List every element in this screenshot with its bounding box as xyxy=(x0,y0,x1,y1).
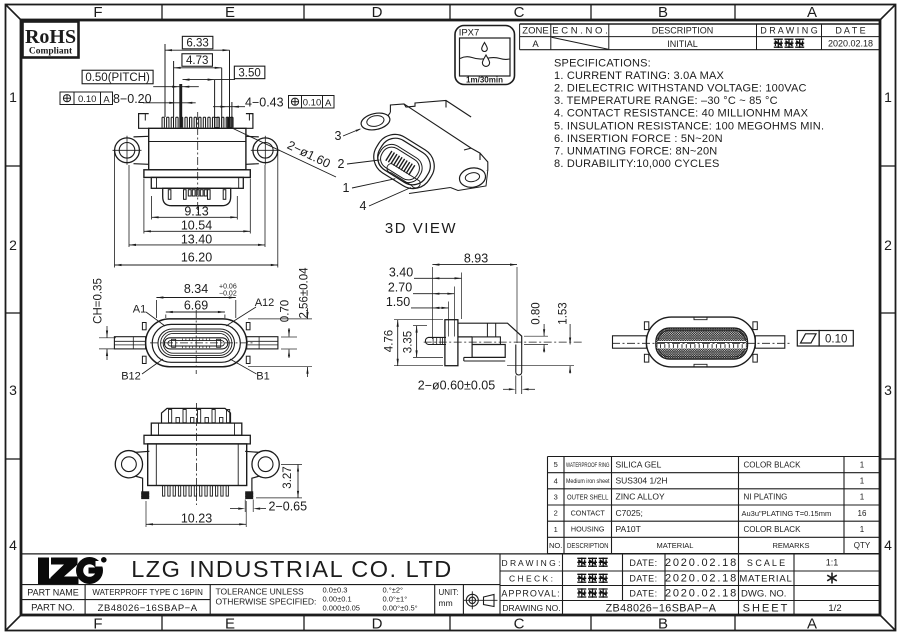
svg-text:8.34: 8.34 xyxy=(184,282,208,296)
front view shell left tab xyxy=(139,114,149,129)
svg-text:3.40: 3.40 xyxy=(389,266,413,280)
svg-text:A: A xyxy=(807,4,817,21)
svg-text:UNIT:: UNIT: xyxy=(439,588,459,597)
svg-text:C: C xyxy=(514,4,525,21)
svg-text:TOLERANCE UNLESS: TOLERANCE UNLESS xyxy=(216,587,305,597)
svg-text:PA10T: PA10T xyxy=(616,524,641,534)
svg-text:SPECIFICATIONS:: SPECIFICATIONS: xyxy=(554,58,651,70)
3D view tongue edge xyxy=(385,162,421,189)
svg-text:10.54: 10.54 xyxy=(181,219,212,233)
front view step block xyxy=(151,177,243,188)
svg-text:OUTER SHELL: OUTER SHELL xyxy=(567,492,609,501)
svg-text:4.76: 4.76 xyxy=(384,330,396,352)
svg-text:0.10: 0.10 xyxy=(78,94,97,105)
svg-text:A: A xyxy=(807,616,817,633)
svg-text:1/2: 1/2 xyxy=(828,603,841,614)
ECN revision table xyxy=(520,24,880,50)
svg-text:DATE:: DATE: xyxy=(629,574,657,584)
svg-text:B1: B1 xyxy=(256,371,269,383)
front view top pins xyxy=(162,117,233,127)
svg-text:2020.02.18: 2020.02.18 xyxy=(665,573,738,585)
svg-text:2. DIELECTRIC WITHSTAND VOL: 2. DIELECTRIC WITHSTAND VOLTAGE: 100VAC xyxy=(554,83,807,95)
svg-text:1: 1 xyxy=(554,525,558,534)
svg-text:1: 1 xyxy=(860,493,865,502)
svg-text:3: 3 xyxy=(9,382,17,398)
svg-text:LZG INDUSTRIAL CO. LTD: LZG INDUSTRIAL CO. LTD xyxy=(131,556,453,582)
svg-text:2−ø0.60±0.05: 2−ø0.60±0.05 xyxy=(418,379,495,393)
bottom view top cap xyxy=(162,408,231,423)
bottom view flange xyxy=(144,435,250,444)
top view outer oval xyxy=(646,317,755,367)
svg-text:A: A xyxy=(532,39,539,50)
svg-text:8. DURABILITY:10,000 CYCLES: 8. DURABILITY:10,000 CYCLES xyxy=(554,158,720,170)
svg-text:0.50(PITCH): 0.50(PITCH) xyxy=(85,72,150,84)
svg-text:0.00°±0.5°: 0.00°±0.5° xyxy=(383,604,418,613)
svg-text:APPROVAL:: APPROVAL: xyxy=(501,588,560,598)
front view dim extension lines left xyxy=(165,44,174,117)
svg-text:B12: B12 xyxy=(121,371,141,383)
svg-text:9.13: 9.13 xyxy=(184,204,208,218)
side view mid block xyxy=(472,337,500,345)
svg-text:S C A L E: S C A L E xyxy=(747,558,785,568)
front view shell right tab xyxy=(246,114,253,129)
top view left lead xyxy=(613,336,647,348)
svg-text:DATE:: DATE: xyxy=(629,558,657,568)
svg-text:INITIAL: INITIAL xyxy=(667,39,698,49)
svg-text:3: 3 xyxy=(335,129,342,143)
svg-text:0.10: 0.10 xyxy=(825,334,847,346)
svg-text:ZB48026−16SBAP−A: ZB48026−16SBAP−A xyxy=(98,603,198,614)
svg-text:+0.06: +0.06 xyxy=(219,284,237,291)
svg-text:6. INSERTION FORCE : 5N~20: 6. INSERTION FORCE : 5N~20N xyxy=(554,133,723,145)
svg-text:2.56±0.04: 2.56±0.04 xyxy=(299,267,311,319)
3D view waterproof ring oval xyxy=(367,127,442,195)
face view centerlines xyxy=(195,310,197,374)
svg-text:0.00±0.1: 0.00±0.1 xyxy=(323,595,352,604)
svg-text:2−0.65: 2−0.65 xyxy=(269,500,308,514)
flatness callout frame xyxy=(797,331,819,347)
svg-text:4: 4 xyxy=(554,476,558,485)
top view hatched seal ring xyxy=(656,328,748,359)
svg-text:1: 1 xyxy=(884,89,892,105)
part name / part no rows xyxy=(21,599,210,601)
face view second shell xyxy=(152,324,240,362)
svg-text:0.80: 0.80 xyxy=(531,302,543,324)
svg-text:A: A xyxy=(103,94,110,105)
svg-text:16: 16 xyxy=(858,509,867,518)
svg-text:PART NO.: PART NO. xyxy=(31,603,75,614)
svg-text:2020.02.18: 2020.02.18 xyxy=(665,587,738,599)
svg-text:D R A W I N G :: D R A W I N G : xyxy=(501,558,560,568)
3D view mouth ovals xyxy=(373,140,426,187)
side view right leg xyxy=(515,345,517,373)
face view right mount tabs xyxy=(246,323,250,330)
bill of materials table xyxy=(548,457,881,554)
front view base flange xyxy=(144,170,250,178)
svg-text:CH=0.35: CH=0.35 xyxy=(93,278,105,324)
svg-text:C7025;: C7025; xyxy=(616,508,643,518)
svg-text:4: 4 xyxy=(884,537,892,553)
face view third shell xyxy=(158,329,235,358)
svg-text:SILICA GEL: SILICA GEL xyxy=(616,459,662,469)
projection symbol xyxy=(466,594,478,606)
svg-text:8−0.20: 8−0.20 xyxy=(113,92,152,106)
svg-text:1: 1 xyxy=(860,460,865,469)
svg-text:QTY: QTY xyxy=(854,541,871,550)
svg-text:DWG. NO.: DWG. NO. xyxy=(741,588,786,599)
3D view shell tangent bottom xyxy=(409,188,450,194)
face view left mount tabs xyxy=(142,323,146,330)
front view tongue contact slots xyxy=(168,190,226,200)
bottom view cap pins xyxy=(169,410,230,423)
svg-text:16.20: 16.20 xyxy=(181,251,212,265)
svg-text:E: E xyxy=(225,4,235,21)
svg-text:Compliant: Compliant xyxy=(29,47,73,57)
bottom view main body xyxy=(148,444,247,486)
IPX7 water wave xyxy=(460,57,510,60)
svg-text:Au3u"PLATING T=0.15mm: Au3u"PLATING T=0.15mm xyxy=(742,509,832,518)
svg-text:E: E xyxy=(225,616,235,633)
svg-text:HOUSING: HOUSING xyxy=(571,525,605,534)
svg-text:PART NAME: PART NAME xyxy=(27,587,79,597)
svg-text:1: 1 xyxy=(860,477,865,486)
svg-text:1: 1 xyxy=(343,181,350,195)
svg-text:0.10: 0.10 xyxy=(303,98,322,109)
top view corner tabs xyxy=(644,322,648,330)
3D view shell tangent top xyxy=(379,112,391,129)
svg-text:ZB48026−16SBAP−A: ZB48026−16SBAP−A xyxy=(606,603,717,615)
svg-text:3: 3 xyxy=(554,493,558,502)
svg-text:1: 1 xyxy=(9,89,17,105)
svg-text:4: 4 xyxy=(360,199,367,213)
dimension 10.54 xyxy=(143,179,145,234)
svg-text:5: 5 xyxy=(554,460,558,469)
svg-text:1: 1 xyxy=(860,525,865,534)
svg-text:MATERIAL: MATERIAL xyxy=(657,541,694,550)
LZG logo xyxy=(38,557,107,584)
dimension 13.40 xyxy=(128,165,130,247)
svg-text:ZINC ALLOY: ZINC ALLOY xyxy=(616,492,665,502)
3D view bottom-right mounting ear xyxy=(450,170,487,191)
front view tongue with rounded bottom xyxy=(163,188,231,205)
svg-text:D A T E: D A T E xyxy=(835,26,865,36)
svg-text:A: A xyxy=(325,98,332,109)
svg-text:0.0°±1°: 0.0°±1° xyxy=(383,595,408,604)
svg-text:0.0±0.3: 0.0±0.3 xyxy=(323,586,348,595)
IPX7 droplet on wave xyxy=(482,55,489,66)
svg-text:NO.: NO. xyxy=(549,541,562,550)
svg-text:WATERPROOF RING: WATERPROOF RING xyxy=(566,462,610,469)
svg-text:B: B xyxy=(658,616,668,633)
face view tongue xyxy=(164,338,227,349)
svg-text:C: C xyxy=(514,616,525,633)
front view wide pins extension lines xyxy=(215,50,232,127)
side view body upper xyxy=(458,323,522,344)
svg-text:6.69: 6.69 xyxy=(184,299,208,313)
front view centerline xyxy=(197,112,199,213)
bottom view right ear xyxy=(252,451,279,478)
svg-text:COLOR BLACK: COLOR BLACK xyxy=(744,460,802,469)
dimension 6.33 xyxy=(182,36,213,49)
top view centre band pins xyxy=(661,344,743,348)
svg-text:1. CURRENT RATING: 3.0A MA: 1. CURRENT RATING: 3.0A MAX xyxy=(554,70,724,82)
svg-text:0.°±2°: 0.°±2° xyxy=(383,586,404,595)
front view shell band line xyxy=(149,141,246,143)
svg-text:IPX7: IPX7 xyxy=(459,28,480,39)
ECN table diagonal in revision cell xyxy=(552,37,609,49)
svg-text:DESCRIPTION: DESCRIPTION xyxy=(652,26,714,36)
face view left lead xyxy=(114,337,145,349)
ECN row drawing name (CJK) xyxy=(774,39,783,49)
face view fifth shell line xyxy=(163,333,229,353)
left zone tick marks xyxy=(6,165,22,167)
svg-text:2.70: 2.70 xyxy=(388,281,412,295)
svg-text:4. CONTACT RESISTANCE: 40: 4. CONTACT RESISTANCE: 40 MILLIONHM MAX xyxy=(554,108,809,120)
svg-text:WATERPROFF TYPE C 16PIN: WATERPROFF TYPE C 16PIN xyxy=(92,588,203,597)
svg-text:A12: A12 xyxy=(255,297,275,309)
svg-text:SHEET: SHEET xyxy=(743,603,790,615)
svg-text:2: 2 xyxy=(338,157,345,171)
svg-text:RoHS: RoHS xyxy=(25,26,76,48)
top view centerline xyxy=(612,342,790,344)
svg-text:2: 2 xyxy=(9,237,17,253)
svg-text:E C N . N O .: E C N . N O . xyxy=(552,26,607,37)
svg-text:A1: A1 xyxy=(133,304,146,316)
svg-text:3.27: 3.27 xyxy=(282,466,294,488)
svg-text:8.93: 8.93 xyxy=(464,252,488,266)
bottom view upper band xyxy=(151,423,242,435)
dimension 9.13 xyxy=(151,196,153,220)
top view right lead xyxy=(755,336,785,348)
svg-text:10.23: 10.23 xyxy=(181,511,212,525)
svg-text:COLOR BLACK: COLOR BLACK xyxy=(744,525,802,534)
IPX7 inner window xyxy=(460,38,511,76)
svg-text:0.000±0.05: 0.000±0.05 xyxy=(323,604,360,613)
face view tongue contact ticks xyxy=(183,339,210,349)
svg-text:1m/30min: 1m/30min xyxy=(466,76,503,85)
side view lower step xyxy=(464,357,505,361)
svg-text:4.73: 4.73 xyxy=(186,55,208,67)
side view centerline xyxy=(424,341,582,343)
side view lower block xyxy=(472,345,505,358)
front view left ear lug xyxy=(115,138,140,163)
right zone tick marks xyxy=(880,165,896,167)
dimension 0.50 PITCH xyxy=(82,70,153,84)
svg-text:1.50: 1.50 xyxy=(386,295,410,309)
svg-text:D: D xyxy=(372,4,383,21)
svg-text:4−0.43: 4−0.43 xyxy=(245,96,284,110)
svg-text:13.40: 13.40 xyxy=(181,232,212,246)
svg-text:3.50: 3.50 xyxy=(238,67,260,79)
svg-text:2020.02.18: 2020.02.18 xyxy=(665,557,738,569)
title banner xyxy=(21,553,880,555)
dimension 3.50 xyxy=(234,66,265,79)
front view shell body xyxy=(149,128,246,170)
top view centre band xyxy=(658,341,746,349)
svg-text:ZONE: ZONE xyxy=(522,26,548,37)
svg-text:3. TEMPERATURE RANGE: –30 °: 3. TEMPERATURE RANGE: –30 °C ~ 85 °C xyxy=(554,95,778,107)
svg-text:MATERIAL: MATERIAL xyxy=(739,574,792,585)
svg-text:B: B xyxy=(658,4,668,21)
svg-text:4: 4 xyxy=(9,537,17,553)
IPX7 waterproof symbol box xyxy=(455,26,515,85)
svg-text:2: 2 xyxy=(554,509,558,518)
face view outer oval shell xyxy=(146,319,247,367)
3D view top-left mounting ear xyxy=(360,111,392,133)
svg-text:2: 2 xyxy=(884,237,892,253)
dimension 16.20 xyxy=(114,150,116,267)
side view left contact pin xyxy=(425,337,446,344)
svg-text:REMARKS: REMARKS xyxy=(772,541,809,550)
svg-text:C H E C K :: C H E C K : xyxy=(509,574,553,584)
svg-text:−0.02: −0.02 xyxy=(219,291,237,298)
top zone tick marks xyxy=(161,5,163,21)
svg-text:OTHERWISE SPECIFIED:: OTHERWISE SPECIFIED: xyxy=(216,597,317,607)
front view highlighted pitch pin (filled) xyxy=(179,84,182,128)
dimension 4.73 xyxy=(182,54,213,67)
face view fourth shell line xyxy=(161,331,232,355)
svg-text:1:1: 1:1 xyxy=(826,558,839,568)
svg-text:3D VIEW: 3D VIEW xyxy=(385,220,457,237)
svg-text:F: F xyxy=(93,616,102,633)
drawing author name CJK xyxy=(577,558,586,568)
svg-text:5. INSULATION RESISTANCE: 1: 5. INSULATION RESISTANCE: 100 MEGOHMS MI… xyxy=(554,120,824,132)
svg-text:7. UNMATING FORCE: 8N~20N: 7. UNMATING FORCE: 8N~20N xyxy=(554,145,717,157)
side view flange plate xyxy=(445,320,458,366)
feature control frame 8-0.20 xyxy=(60,92,74,105)
svg-text:D: D xyxy=(372,616,383,633)
svg-text:F: F xyxy=(93,4,102,21)
svg-text:3: 3 xyxy=(884,382,892,398)
RoHS compliant logo box xyxy=(23,22,79,58)
bottom view solder feet (black) xyxy=(141,491,149,499)
svg-text:NI PLATING: NI PLATING xyxy=(744,493,788,502)
svg-text:mm: mm xyxy=(439,598,453,608)
svg-text:CONTACT: CONTACT xyxy=(571,509,606,518)
svg-text:2020.02.18: 2020.02.18 xyxy=(828,39,873,49)
3D view pin block xyxy=(386,151,415,175)
approval table xyxy=(500,554,880,616)
svg-text:6.33: 6.33 xyxy=(186,38,208,50)
face view tongue inner pill xyxy=(168,341,224,346)
bottom zone tick marks xyxy=(161,615,163,631)
front view wide pins 4-0.43 xyxy=(215,117,219,127)
leader 2-diameter-1.60 xyxy=(232,128,336,177)
svg-text:1.53: 1.53 xyxy=(558,302,570,324)
bottom view centerline xyxy=(196,403,198,505)
svg-text:DESCRIPTION: DESCRIPTION xyxy=(567,541,609,550)
3D view back housing block xyxy=(390,101,487,186)
top view shell seam notches xyxy=(694,317,707,367)
svg-text:Medium iron sheet: Medium iron sheet xyxy=(566,478,610,485)
front view right ear lug xyxy=(253,138,278,163)
svg-text:DRAWING NO.: DRAWING NO. xyxy=(502,603,560,613)
svg-text:D R A W I N G: D R A W I N G xyxy=(760,26,818,36)
face view right lead xyxy=(247,337,278,349)
svg-text:3.35: 3.35 xyxy=(403,331,415,353)
bottom view SMT pins xyxy=(163,486,229,497)
svg-text:SUS304 1/2H: SUS304 1/2H xyxy=(616,476,668,486)
svg-text:DATE:: DATE: xyxy=(629,588,657,598)
IPX7 droplet top xyxy=(482,43,488,52)
bottom view left ear xyxy=(115,451,142,478)
